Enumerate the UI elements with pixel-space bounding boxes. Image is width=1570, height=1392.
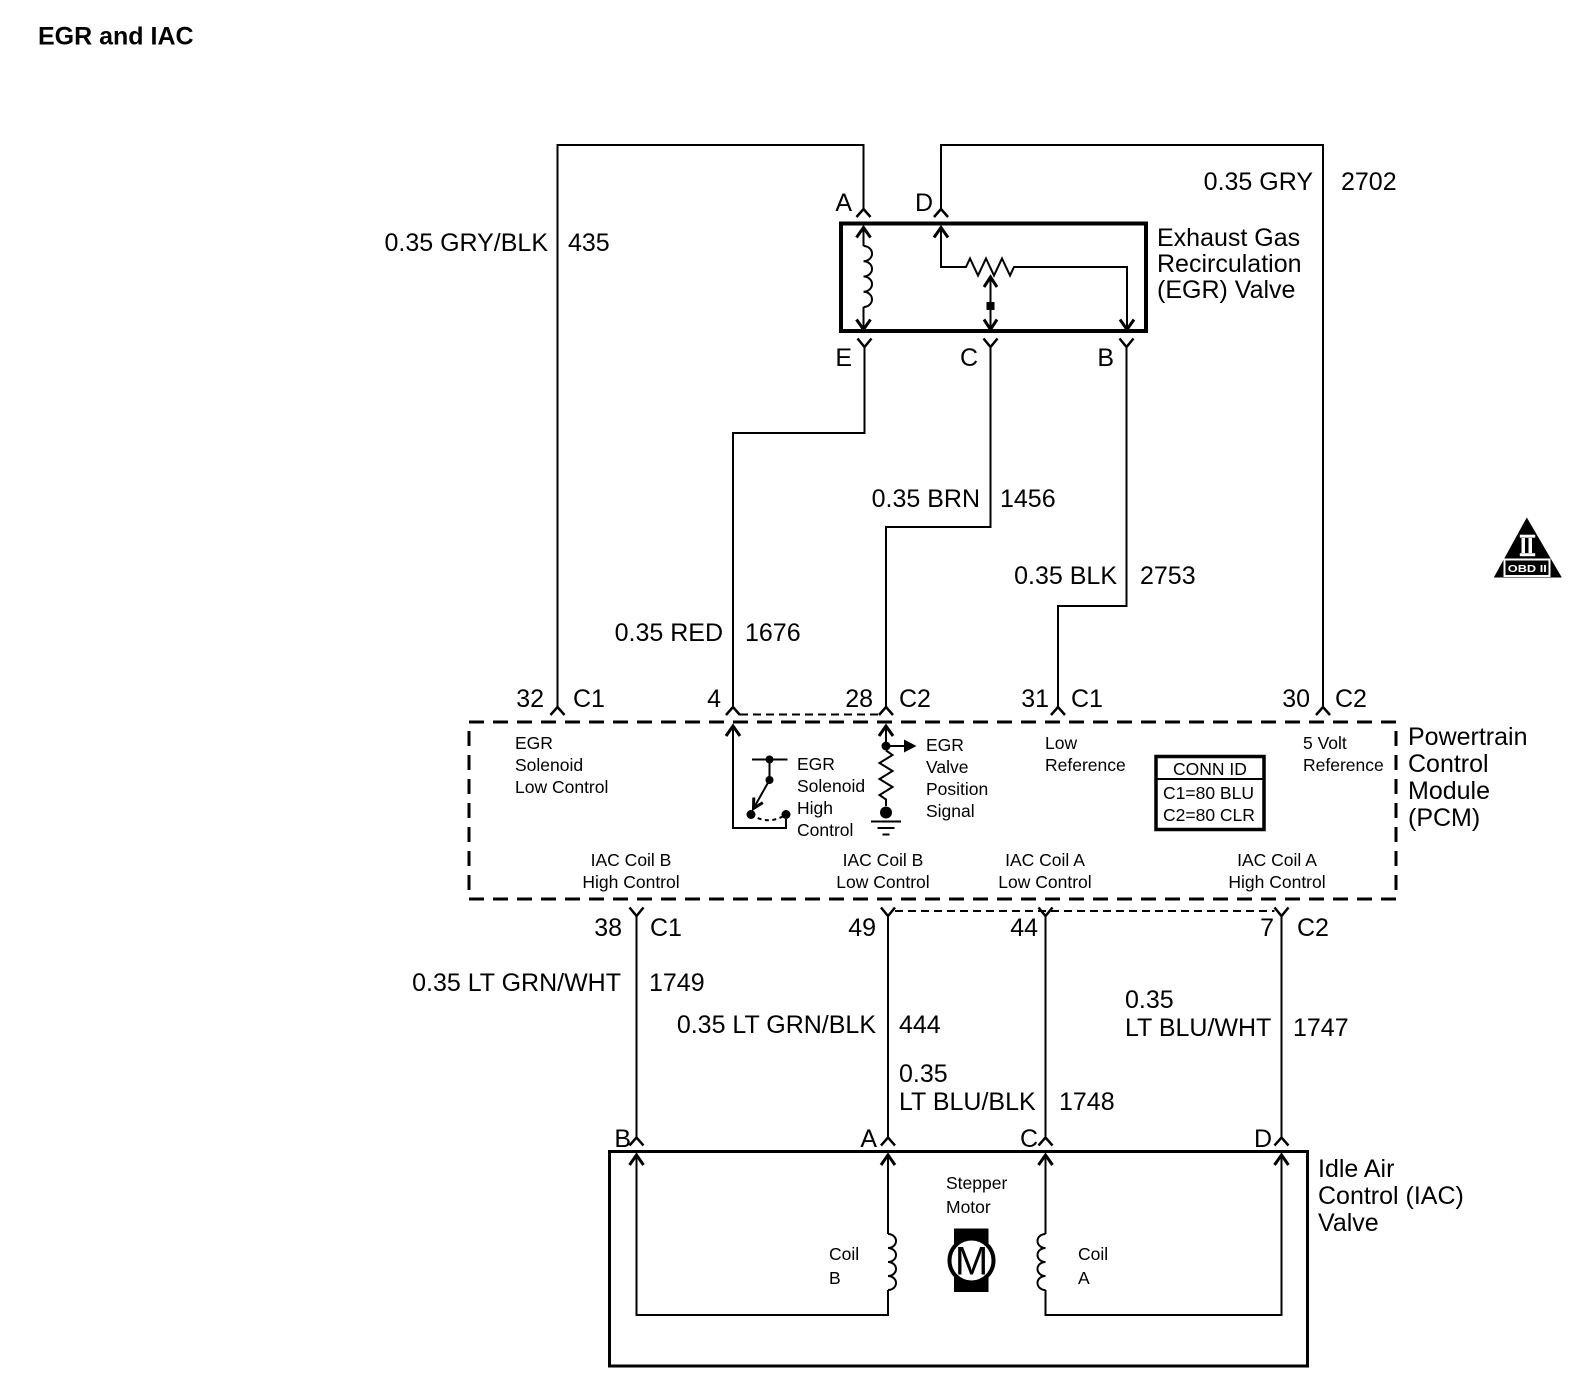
svg-text:Solenoid: Solenoid [515,755,583,775]
svg-text:4: 4 [707,685,721,713]
svg-text:Valve: Valve [926,757,968,777]
svg-text:0.35 BRN: 0.35 BRN [872,485,980,513]
svg-text:Solenoid: Solenoid [797,776,865,796]
svg-text:0.35 BLK: 0.35 BLK [1014,562,1117,590]
svg-text:Recirculation: Recirculation [1157,250,1302,278]
svg-text:0.35 GRY/BLK: 0.35 GRY/BLK [384,229,548,257]
svg-text:IAC Coil A: IAC Coil A [1005,850,1085,870]
svg-text:Reference: Reference [1045,755,1126,775]
svg-text:EGR: EGR [926,735,964,755]
svg-text:0.35 GRY: 0.35 GRY [1204,168,1314,196]
svg-text:EGR: EGR [797,754,835,774]
svg-text:OBD II: OBD II [1508,563,1547,575]
svg-text:B: B [1097,344,1114,372]
svg-text:High: High [797,798,833,818]
svg-text:Exhaust Gas: Exhaust Gas [1157,224,1300,252]
svg-text:30: 30 [1282,685,1310,713]
svg-text:0.35: 0.35 [899,1060,948,1088]
svg-text:C2: C2 [899,685,931,713]
svg-text:28: 28 [845,685,873,713]
svg-text:EGR and IAC: EGR and IAC [38,23,194,51]
svg-text:2702: 2702 [1341,168,1397,196]
svg-text:1749: 1749 [649,969,705,997]
svg-text:1748: 1748 [1059,1088,1115,1116]
svg-text:444: 444 [899,1011,941,1039]
svg-text:IAC Coil B: IAC Coil B [591,850,672,870]
svg-text:0.35: 0.35 [1125,986,1174,1014]
svg-text:A: A [835,189,852,217]
svg-text:IAC Coil A: IAC Coil A [1237,850,1317,870]
svg-text:Idle Air: Idle Air [1318,1155,1394,1183]
svg-text:Reference: Reference [1303,755,1384,775]
svg-text:B: B [829,1268,841,1288]
svg-text:2753: 2753 [1140,562,1196,590]
svg-text:5 Volt: 5 Volt [1303,733,1347,753]
svg-text:Coil: Coil [1078,1244,1108,1264]
svg-text:Control: Control [797,820,853,840]
svg-text:C1: C1 [1071,685,1103,713]
svg-text:IAC Coil B: IAC Coil B [843,850,924,870]
svg-text:Coil: Coil [829,1244,859,1264]
svg-text:D: D [1254,1125,1272,1153]
svg-text:7: 7 [1260,914,1274,942]
svg-text:Low Control: Low Control [998,872,1091,892]
svg-text:C: C [1020,1125,1038,1153]
svg-text:(EGR) Valve: (EGR) Valve [1157,276,1295,304]
svg-text:C1: C1 [650,914,682,942]
svg-text:49: 49 [848,914,876,942]
svg-text:A: A [860,1125,877,1153]
svg-text:Valve: Valve [1318,1209,1379,1237]
svg-text:A: A [1078,1268,1090,1288]
svg-text:C1=80 BLU: C1=80 BLU [1163,783,1254,803]
svg-text:EGR: EGR [515,733,553,753]
svg-text:Low Control: Low Control [836,872,929,892]
svg-text:CONN ID: CONN ID [1173,759,1247,779]
svg-text:Control: Control [1408,750,1489,778]
svg-text:B: B [614,1125,631,1153]
svg-text:C2=80 CLR: C2=80 CLR [1163,805,1255,825]
svg-text:High Control: High Control [1228,872,1325,892]
svg-text:0.35 LT GRN/BLK: 0.35 LT GRN/BLK [677,1011,876,1039]
svg-text:38: 38 [594,914,622,942]
svg-text:Signal: Signal [926,801,975,821]
svg-text:1676: 1676 [745,619,801,647]
svg-text:C: C [960,344,978,372]
svg-text:1747: 1747 [1293,1014,1349,1042]
svg-text:(PCM): (PCM) [1408,804,1480,832]
svg-text:C1: C1 [573,685,605,713]
svg-text:Low Control: Low Control [515,777,608,797]
svg-text:C2: C2 [1335,685,1367,713]
svg-text:E: E [835,344,852,372]
svg-text:Control (IAC): Control (IAC) [1318,1182,1464,1210]
svg-text:High Control: High Control [582,872,679,892]
svg-text:Low: Low [1045,733,1077,753]
svg-text:31: 31 [1021,685,1049,713]
svg-text:44: 44 [1010,914,1038,942]
svg-text:1456: 1456 [1000,485,1056,513]
svg-text:Position: Position [926,779,988,799]
svg-text:32: 32 [516,685,544,713]
svg-text:D: D [915,189,933,217]
svg-text:0.35 LT GRN/WHT: 0.35 LT GRN/WHT [412,969,621,997]
svg-text:435: 435 [568,229,610,257]
svg-text:Module: Module [1408,777,1490,805]
svg-text:M: M [955,1240,988,1284]
svg-text:0.35 RED: 0.35 RED [615,619,723,647]
svg-text:Motor: Motor [946,1197,991,1217]
svg-text:LT BLU/WHT: LT BLU/WHT [1125,1014,1271,1042]
svg-text:LT BLU/BLK: LT BLU/BLK [899,1088,1036,1116]
svg-text:C2: C2 [1297,914,1329,942]
svg-text:Stepper: Stepper [946,1173,1007,1193]
svg-text:Powertrain: Powertrain [1408,723,1528,751]
